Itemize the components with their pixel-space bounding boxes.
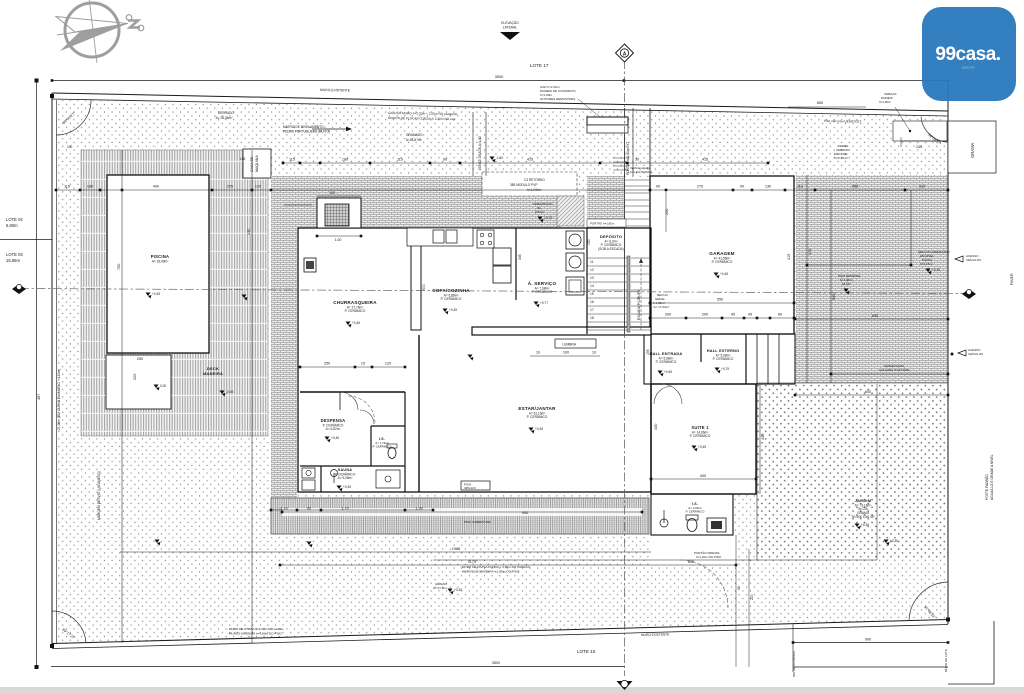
svg-text:220: 220 [133,374,137,380]
svg-text:90: 90 [740,185,744,189]
svg-text:14: 14 [590,284,594,288]
svg-text:400: 400 [153,185,159,189]
piso label box [461,481,490,490]
bottom dimension line long [51,666,625,668]
svg-text:310: 310 [919,185,925,189]
svg-text:LATERAL: LATERAL [503,26,518,30]
level estar [529,428,534,432]
svg-text:64,5%: 64,5% [842,282,851,286]
svg-text:385 MODULO PVP: 385 MODULO PVP [510,183,537,187]
svg-text:45: 45 [731,313,735,317]
escada exterior strip white [624,177,650,334]
svg-text:345: 345 [518,254,522,260]
suite dim 400 [651,478,756,480]
svg-text:Piso não mau UEDIFICET: Piso não mau UEDIFICET [824,119,861,124]
centerline horizontal [20,289,963,294]
left property line [51,93,53,648]
brick walkway band: top of house [271,176,482,228]
wall copa/servico divider [515,228,517,300]
hall externo strips [756,334,758,384]
pool PISCINA [107,175,209,353]
level copa [443,309,448,313]
svg-text:950: 950 [522,511,528,515]
svg-text:225: 225 [227,185,233,189]
svg-text:VEÍCULOS: VEÍCULOS [968,352,983,356]
bottom boundary outer [52,620,948,644]
svg-text:LOTE 03: LOTE 03 [6,252,23,257]
svg-text:-1,10: -1,10 [496,156,503,160]
bottom right margin box [993,621,995,684]
corner recess box top right [893,121,947,141]
svg-text:casa em: casa em [962,66,975,70]
svg-text:P. CERÂMICO: P. CERÂMICO [656,360,677,364]
stair rail [627,256,630,332]
dim y565 [280,564,736,566]
level despensa [325,437,330,441]
svg-text:'h=5,19m²': 'h=5,19m²' [834,156,848,160]
svg-text:245: 245 [916,145,922,149]
svg-text:GARAGEM: GARAGEM [709,251,734,256]
corridor wall [404,392,406,492]
svg-text:600: 600 [865,390,871,394]
svg-text:- MURO DE DIVISA h=2,20m DO pa: - MURO DE DIVISA h=2,20m DO padrão [227,627,284,631]
svg-text:90: 90 [307,507,311,511]
svg-text:+0,45: +0,45 [664,370,672,374]
right property line [947,82,949,624]
section line vertical [624,60,626,676]
svg-text:P. CERÂMICO: P. CERÂMICO [345,309,366,313]
svg-text:200: 200 [665,209,669,215]
svg-text:HALL ENTRADA: HALL ENTRADA [650,351,683,356]
svg-text:+0,45: +0,45 [698,445,706,449]
svg-text:230: 230 [247,229,251,235]
level hall entrada [658,371,663,375]
svg-text:487: 487 [37,394,41,400]
svg-text:ELEVAÇÃO: ELEVAÇÃO [501,20,519,25]
svg-text:P. CERÂMICO: P. CERÂMICO [713,357,734,361]
svg-text:C3 RETORNO: C3 RETORNO [524,178,545,182]
svg-text:+0,45: +0,45 [152,292,160,296]
svg-text:430: 430 [761,434,765,440]
level garagem [714,273,719,277]
fireplace churrasqueira [317,198,361,228]
svg-text:P. CERÂMICO: P. CERÂMICO [441,297,462,301]
despensa north wall [300,391,405,393]
annotation portao lateral [587,219,626,227]
svg-text:120: 120 [385,362,391,366]
svg-text:250: 250 [137,357,143,361]
svg-text:COPA/COZINHA: COPA/COZINHA [432,288,470,293]
svg-text:415: 415 [787,254,791,260]
suite IS cabinet [707,518,726,532]
vergas box top right [895,107,910,131]
svg-text:415: 415 [702,158,708,162]
fridge boxes [493,248,511,265]
pool verticals [121,150,123,643]
portao top gate [587,117,628,125]
hall interior wall [700,334,702,362]
svg-text:120: 120 [255,185,261,189]
svg-text:+0,45: +0,45 [343,485,351,489]
suite IS shower [660,519,668,527]
svg-text:P. CERÂMICO: P. CERÂMICO [532,290,553,294]
svg-text:11: 11 [590,260,594,264]
level servico [534,302,539,306]
svg-text:P. CERÂMICO: P. CERÂMICO [527,415,548,419]
suite IS white [651,494,733,535]
svg-text:100: 100 [67,145,73,149]
svg-text:- MUROS DE MADEIRA = 1,80m DO: - MUROS DE MADEIRA = 1,80m DO PISO [460,570,520,574]
svg-text:+0,75: +0,75 [544,216,552,220]
svg-text:220: 220 [750,594,754,600]
dim line y163 [283,162,768,164]
steps above gate [613,158,629,170]
terrain stipple inside property [56,100,948,644]
svg-text:P. CERÂMICO: P. CERÂMICO [686,510,705,514]
driveway dims [807,264,911,266]
svg-text:LOTE 17: LOTE 17 [530,63,549,68]
suite walls [651,384,756,494]
deposito stair treads [587,258,627,330]
terrain level markers scattered [307,542,312,546]
sauna bench [376,470,400,488]
svg-text:10: 10 [592,351,596,355]
svg-text:FONTE GRADE h=1,80: FONTE GRADE h=1,80 [478,136,482,170]
svg-text:15: 15 [361,362,365,366]
svg-text:CHURRASQUEIRA: CHURRASQUEIRA [333,300,377,305]
svg-text:90: 90 [656,185,660,189]
svg-text:MURO EXISTENTE: MURO EXISTENTE [641,633,669,637]
svg-text:650: 650 [832,294,836,300]
svg-text:A= 67,9m²: A= 67,9m² [433,586,447,590]
svg-text:180: 180 [342,158,348,162]
svg-text:+0,45: +0,45 [331,436,339,440]
IS interno toilet [388,448,396,459]
despensa dim [300,366,405,368]
svg-text:900: 900 [865,638,871,642]
svg-text:630: 630 [872,314,878,318]
deck stripes region around pool [81,150,268,436]
churrasqueira dims [317,235,361,237]
svg-text:15,95m: 15,95m [6,258,20,263]
suite IS east closet [732,494,734,535]
svg-text:PISO COBERTURA: PISO COBERTURA [464,520,491,524]
svg-text:GRAMADO: GRAMADO [406,133,423,137]
garage wing white [650,176,795,334]
bottom right dim 900 [793,642,948,644]
bottom gray strip [0,687,1024,694]
svg-text:550: 550 [717,298,723,302]
garage dim 550 [650,302,794,304]
house main block walls [298,228,651,492]
svg-text:3500: 3500 [492,661,500,665]
svg-text:500: 500 [422,284,426,290]
level marker deck [154,385,159,389]
compass rose [56,0,144,63]
corner angle arc TL [56,100,91,135]
svg-text:1175: 1175 [468,560,476,564]
kitchen counter top [407,228,473,246]
svg-text:+0,45: +0,45 [352,321,360,325]
svg-text:- MUROS MADEIRA h=1,80m DO PIS: - MUROS MADEIRA h=1,80m DO PISO [227,632,283,636]
section marker A top [616,44,634,62]
svg-text:+0,77: +0,77 [540,301,548,305]
bottom right verticals [735,535,737,667]
svg-text:-0,45: -0,45 [226,390,233,394]
svg-text:115: 115 [64,185,70,189]
svg-text:430: 430 [654,424,658,430]
svg-text:250: 250 [324,362,330,366]
svg-text:Á. SERVIÇO: Á. SERVIÇO [528,280,557,286]
svg-text:10: 10 [536,351,540,355]
svg-text:h=1,80m: h=1,80m [879,100,891,104]
svg-text:955: 955 [852,185,858,189]
svg-text:DEPÓSITO: DEPÓSITO [600,234,622,239]
svg-text:115: 115 [289,158,295,162]
svg-text:DESPENSA: DESPENSA [321,418,346,423]
logo 99casa [922,7,1016,101]
TV cabinet [304,258,316,272]
svg-text:650: 650 [817,101,823,105]
muro top outer line [52,93,948,111]
svg-text:18: 18 [590,316,594,320]
suite IS walls [651,494,733,535]
svg-text:LOTE 04: LOTE 04 [6,217,23,222]
svg-text:+0,45: +0,45 [720,272,728,276]
svg-text:125: 125 [240,157,246,161]
svg-text:+0,15: +0,15 [932,268,940,272]
svg-text:115: 115 [397,158,403,162]
brick band: bottom terrace [271,498,649,534]
svg-text:SUITE 1: SUITE 1 [691,425,709,430]
right diamond marker [962,289,976,299]
svg-text:+0,30: +0,30 [454,588,462,592]
corner ticks [50,94,54,98]
svg-text:JARDIM: JARDIM [855,498,872,503]
svg-text:+0,75: +0,75 [721,367,729,371]
svg-text:17: 17 [590,308,594,312]
level marker churrasqueira [346,322,351,326]
svg-text:ESCADA P.CIRUFA: ESCADA P.CIRUFA [637,289,641,320]
tanque boxes left of sauna [302,468,315,478]
svg-text:130: 130 [329,191,335,195]
svg-text:415: 415 [527,158,533,162]
650 top right [788,106,866,108]
svg-text:+0,45: +0,45 [449,308,457,312]
svg-text:TH.50K 10/6 45°: TH.50K 10/6 45° [851,515,875,519]
svg-text:200: 200 [665,313,671,317]
IS interno walls [370,426,372,466]
muro top inner line [52,99,948,116]
casa de maquina box [243,149,271,178]
svg-text:180: 180 [87,185,93,189]
hall block white [644,334,795,384]
suite right vertical dim [759,384,761,494]
churrasqueira balcao arc [360,410,374,424]
svg-text:'A= 28,28m²': 'A= 28,28m²' [215,116,233,120]
svg-text:- MURO DE DIVISA FUNDA = 2,80m: - MURO DE DIVISA FUNDA = 2,80m DO PADRÃO [460,564,531,569]
svg-text:0,00: 0,00 [160,384,166,388]
svg-text:+0,45: +0,45 [535,427,543,431]
corner angle arc BL [52,611,86,643]
kitchen island [411,228,421,330]
hall entrada door arc [662,384,682,404]
svg-text:1.00: 1.00 [335,238,342,242]
level hall externo [715,368,720,372]
portao frente box [339,406,341,408]
dim y549 [120,551,651,553]
svg-text:PISCA: PISCA [535,210,544,214]
svg-text:MATRIZ DE NIVELAMENTO: MATRIZ DE NIVELAMENTO [283,125,324,129]
lavabo sink [331,470,338,477]
white notch with retorno text [482,172,577,196]
svg-text:'A= 17,64m²': 'A= 17,64m²' [653,305,670,309]
right margin box GRAMA [948,121,996,173]
garage dim row [650,317,794,319]
svg-text:h=1,20m DO PISO: h=1,20m DO PISO [696,555,722,559]
ramp diagonal hatch [557,196,584,226]
despensa door arc [340,392,358,410]
svg-text:SERRADO: SERRADO [218,111,234,115]
acesso veiculos arrow [955,256,963,262]
svg-text:GRAMA FAIXA: GRAMA FAIXA [884,364,904,368]
driveway verticals [806,175,808,383]
main house block white [297,228,651,494]
svg-text:A= 5,06m²: A= 5,06m² [338,476,353,480]
svg-text:A= 19,09m²: A= 19,09m² [152,259,169,263]
white area below suite IS [651,535,736,565]
svg-text:+0,30: +0,30 [890,539,898,543]
hall block walls [644,334,795,384]
svg-text:ÁGUA/LUZ E GRADE A NÍVEL: ÁGUA/LUZ E GRADE A NÍVEL [990,454,994,500]
svg-text:30: 30 [635,158,639,162]
svg-text:A=64,87m²: A=64,87m² [406,138,422,142]
svg-text:CALÇADA h=15 NÍVEL: CALÇADA h=15 NÍVEL [879,368,910,372]
svg-text:A= 6,87m²: A= 6,87m² [326,427,341,431]
svg-text:MADEIRA: MADEIRA [203,371,223,376]
svg-text:1.10: 1.10 [280,507,287,511]
svg-text:1.70: 1.70 [341,507,348,511]
stove counter [477,230,494,248]
corner angle arc BR [909,582,948,620]
svg-text:3500: 3500 [495,75,503,79]
svg-text:110: 110 [797,185,803,189]
svg-text:15: 15 [590,292,594,296]
wall servico/deposito divider [586,228,588,334]
svg-text:415: 415 [808,249,812,255]
svg-text:60: 60 [778,313,782,317]
servico appliances [566,231,584,249]
svg-text:MURO DE LOTE: MURO DE LOTE [944,649,948,672]
svg-text:495x120: 495x120 [464,486,476,490]
svg-text:PISCINA: PISCINA [151,254,169,259]
escada exterior treads [625,180,649,226]
svg-text:MAQUINA: MAQUINA [255,155,259,172]
despensa/sauna divider [300,465,405,467]
svg-text:MURO EXISTENTE: MURO EXISTENTE [320,88,351,93]
svg-text:45: 45 [748,313,752,317]
lote divider line left margin [0,239,52,241]
level gramado [490,157,495,161]
svg-text:12: 12 [590,268,594,272]
garage walls [650,176,794,334]
sauna left wall [320,466,322,492]
svg-text:99casa.: 99casa. [935,44,1000,65]
svg-text:LOTE 15: LOTE 15 [577,649,596,654]
svg-text:P. CERÂMICO: P. CERÂMICO [712,260,733,264]
svg-text:POSTE PADRÃO: POSTE PADRÃO [984,474,989,500]
dashed swing arc corridor [348,396,375,423]
svg-text:500 DE DIVISÓRIA: 500 DE DIVISÓRIA [791,651,796,677]
acesso pedestres arrow [958,350,966,356]
svg-text:A: A [623,51,627,57]
svg-text:200: 200 [702,313,708,317]
suite block white [651,384,756,494]
second flight treads [631,258,651,330]
left diamond marker [12,284,26,294]
svg-text:130: 130 [765,185,771,189]
svg-text:+0,30: +0,30 [861,523,869,527]
svg-text:h=0,15m²: h=0,15m² [920,262,933,266]
estar west wall [418,335,420,492]
svg-text:700: 700 [117,264,121,270]
stair arrow dashed [640,262,642,330]
brick walkway: side gate strip [587,176,624,228]
brick band: left of house [271,176,297,534]
jardim stipple [757,384,948,560]
level suite [692,446,697,450]
svg-text:16: 16 [590,300,594,304]
level marker pool [146,293,151,297]
svg-text:90: 90 [443,158,447,162]
svg-text:PAVER: PAVER [1010,273,1014,285]
svg-text:ESTAR/JANTAR: ESTAR/JANTAR [518,406,556,411]
svg-text:SAUNA: SAUNA [338,468,353,472]
top strip v lines [472,112,474,176]
svg-text:PORTÃO h=1,80m: PORTÃO h=1,80m [590,221,615,226]
deck step rect [106,355,171,409]
svg-text:1.30: 1.30 [415,507,422,511]
wall south of servico [472,327,651,335]
svg-text:5,60m: 5,60m [6,223,18,228]
section marker A bottom [617,681,633,690]
bottom muro line [52,625,948,649]
property boundary: top dimension line [52,80,948,82]
gate swing arc bottom [680,560,728,608]
svg-text:130: 130 [587,239,591,245]
svg-text:275: 275 [697,185,703,189]
corner angle arc TR [921,117,948,142]
svg-text:h=1,0/6m²: h=1,0/6m² [527,188,541,192]
svg-text:LUMBRA: LUMBRA [562,343,577,347]
svg-text:P. CERÂMICO: P. CERÂMICO [690,434,711,438]
jardim frame lines [757,382,948,384]
left outer dimension line [36,80,38,667]
level jardim [855,524,860,528]
svg-text:GRAMA: GRAMA [970,142,975,158]
svg-text:PEDRA PORTUGUESA (MUITO): PEDRA PORTUGUESA (MUITO) [283,130,330,134]
suite IS toilet [686,515,698,520]
svg-text:1965: 1965 [452,547,460,551]
left inner line [56,100,58,644]
svg-text:90: 90 [737,586,741,590]
suite door arc [654,386,672,404]
bottom band dim y510 [271,509,433,511]
lumbra box [555,339,596,348]
svg-text:(SOB A ESCADA): (SOB A ESCADA) [598,247,624,251]
svg-text:400: 400 [700,474,706,478]
svg-text:OUTORES REMOVÍVEIS: OUTORES REMOVÍVEIS [540,97,575,101]
